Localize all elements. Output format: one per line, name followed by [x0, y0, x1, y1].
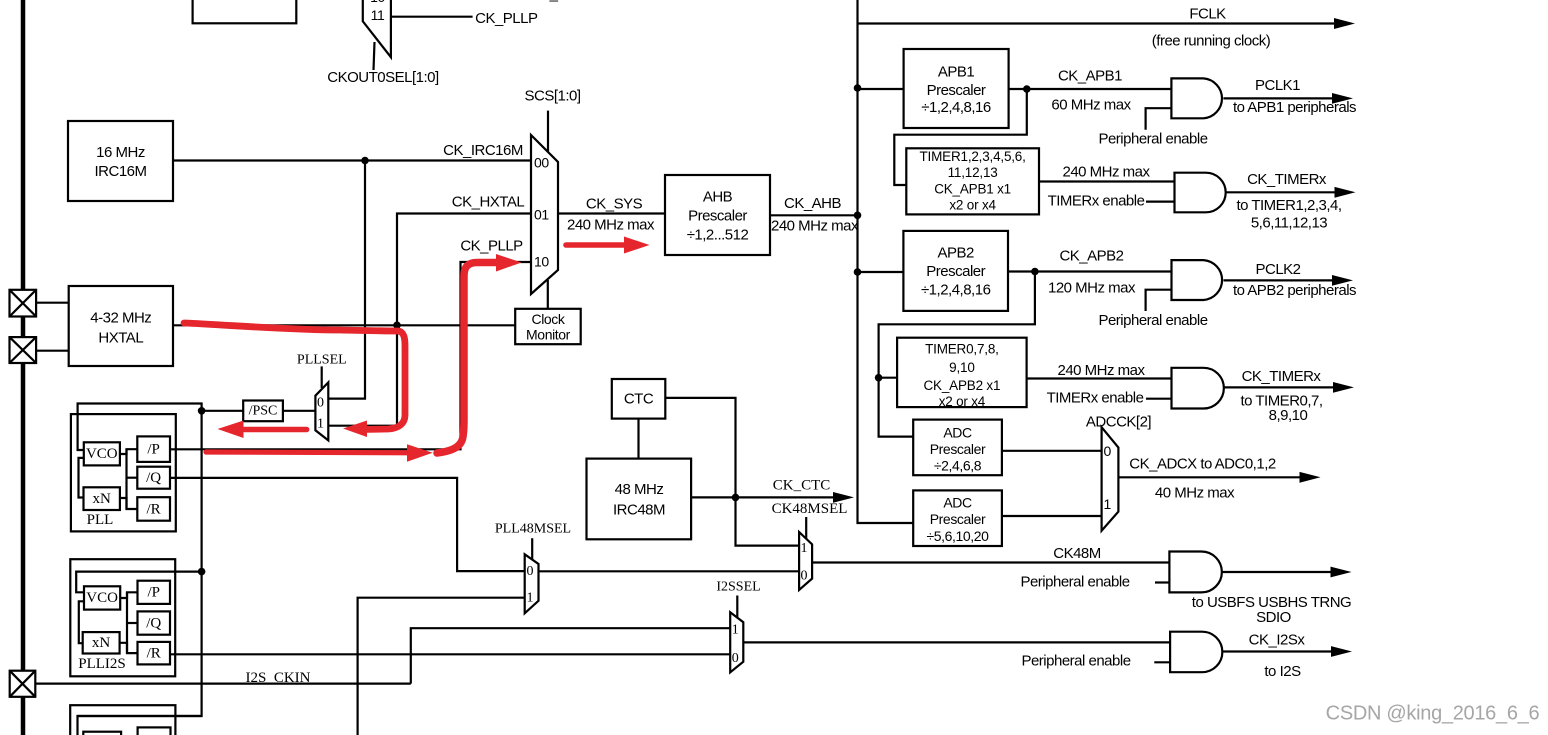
block APB2 Prescaler: [903, 231, 1008, 311]
svg-text:CSDN @king_2016_6_6: CSDN @king_2016_6_6: [1326, 703, 1540, 725]
wire PLLI2S /R to I2SSEL input 0: [170, 653, 730, 655]
label I2S_CKIN: [245, 670, 310, 686]
label CK_PLLP (mid): [460, 238, 523, 255]
wire SCS mux to Clock Monitor: [547, 280, 549, 309]
label CK_IRC16M: [443, 142, 523, 159]
svg-text:APB2: APB2: [938, 245, 975, 262]
wire bus to APB2 prescaler: [858, 271, 904, 273]
svg-text:48 MHz: 48 MHz: [615, 481, 664, 498]
block bottom PLL /P (cut): [138, 727, 171, 735]
wire CK_PLLP from PLL /P to SCS mux input 10: [170, 262, 532, 449]
label 240 MHz max (CK_AHB): [771, 218, 859, 235]
svg-text:CK_ADCX to ADC0,1,2: CK_ADCX to ADC0,1,2: [1129, 456, 1276, 473]
svg-text:1: 1: [801, 541, 808, 556]
svg-text:PLLI2S: PLLI2S: [78, 656, 126, 672]
block PLLI2S /P: [138, 581, 171, 604]
label CK_TIMERx (APB1): [1247, 171, 1327, 188]
wire ADC prescaler2 to ADCCK mux input 1: [1002, 515, 1102, 517]
svg-text:(free running clock): (free running clock): [1152, 33, 1271, 50]
svg-text:1: 1: [732, 623, 739, 638]
block PLLI2S outer box: [70, 559, 175, 676]
svg-text:Monitor: Monitor: [526, 327, 571, 343]
wire TIMERx enable stub into U2: [1146, 201, 1175, 203]
wire PLL48MSEL select line: [531, 538, 533, 562]
svg-text:to I2S: to I2S: [1264, 663, 1301, 680]
block PLL outer box: [71, 414, 176, 531]
wire HXTAL branch to PLLSEL input 1: [329, 425, 397, 427]
svg-text:x2 or x4: x2 or x4: [949, 198, 996, 213]
svg-text:00: 00: [534, 155, 549, 171]
mux PLL48MSEL: [525, 554, 539, 613]
label PLLI2S: [78, 656, 126, 672]
svg-text:TIMERx enable: TIMERx enable: [1047, 390, 1144, 407]
svg-text:CK_APB1: CK_APB1: [1058, 68, 1122, 85]
label (free running clock): [1152, 33, 1271, 50]
wire PLL internal divider bus: [120, 449, 137, 509]
svg-text:CK_AHB: CK_AHB: [784, 195, 842, 212]
block PLL /P: [137, 436, 170, 462]
label 120 MHz max: [1048, 280, 1136, 297]
mux SCS system clock selector: [531, 135, 558, 294]
label 60 MHz max: [1051, 97, 1131, 114]
block PLL /Q: [137, 467, 170, 489]
wire I2S_CKIN up to I2SSEL input 1: [411, 628, 730, 683]
wire CK_TIMERx output arrow (APB1 timers): [1226, 187, 1356, 198]
svg-text:0: 0: [801, 569, 808, 584]
label PLL48MSEL: [495, 522, 571, 537]
wire CK_I2Sx output arrow: [1222, 646, 1352, 657]
wire I2SSEL output to AND gate U6: [743, 641, 1170, 643]
svg-text:PLLSEL: PLLSEL: [297, 353, 347, 368]
wire CK_CTC output arrow: [691, 492, 854, 503]
label PLL: [87, 512, 114, 528]
svg-text:4-32 MHz: 4-32 MHz: [90, 310, 151, 327]
svg-text:ADC: ADC: [943, 495, 972, 511]
svg-text:1: 1: [1104, 496, 1112, 512]
block bottom PLL VCO (cut): [83, 732, 121, 735]
svg-text:/Q: /Q: [146, 470, 161, 486]
wire CK48M from mux to AND gate U5: [812, 561, 1169, 563]
wire peripheral enable into gate U1: [1146, 108, 1172, 130]
wire TIMER0 clock to AND gate U4: [1027, 377, 1172, 379]
wire CK_PLLP into CKOUT0SEL input 11: [391, 16, 473, 18]
label CK_APB2: [1059, 248, 1123, 265]
svg-text:÷1,2,4,8,16: ÷1,2,4,8,16: [921, 282, 991, 299]
svg-text:CK_IRC16M: CK_IRC16M: [443, 142, 523, 159]
wire CK_APB1 branch down to TIMER1 multiplier: [894, 89, 1027, 185]
svg-text:CK_SYS: CK_SYS: [586, 196, 643, 213]
node junction PLL feed: [198, 407, 206, 415]
wire from bottom PLL block to PLL48MSEL input 1: [358, 598, 525, 735]
red annotation arrow out of /PSC (leftwards): [218, 421, 307, 439]
block ADC Prescaler 2: [913, 490, 1002, 546]
wire CK_AHB to bus: [770, 214, 858, 216]
wire junction to TIMER0 box: [879, 377, 898, 379]
svg-text:TIMER1,2,3,4,5,6,: TIMER1,2,3,4,5,6,: [920, 149, 1026, 164]
oscillator block 4-32 MHz HXTAL: [69, 286, 173, 366]
svg-text:/P: /P: [147, 585, 160, 601]
svg-text:÷1,2,4,8,16: ÷1,2,4,8,16: [921, 99, 991, 116]
wire CK_APB1 to AND gate U1: [1009, 88, 1172, 90]
svg-text:Peripheral enable: Peripheral enable: [1020, 574, 1129, 591]
crystal X2 pad lower: [10, 337, 37, 363]
label CK_I2Sx: [1249, 632, 1306, 649]
svg-text:240 MHz max: 240 MHz max: [771, 218, 859, 235]
label CK_AHB: [784, 195, 842, 212]
block PLLI2S /R: [138, 642, 171, 665]
label CK48MSEL: [772, 501, 848, 517]
svg-text:PCLK2: PCLK2: [1255, 261, 1300, 278]
svg-text:ADC: ADC: [943, 425, 972, 441]
label CK_HXTAL: [452, 194, 525, 211]
wire CK_SYS from SCS mux to AHB prescaler: [558, 212, 665, 214]
label to I2S: [1264, 663, 1301, 680]
red annotation curve up into SCS mux input 10: [437, 254, 522, 453]
mux ADCCK: [1102, 427, 1119, 531]
svg-text:CK_HXTAL: CK_HXTAL: [452, 194, 525, 211]
svg-text:0: 0: [527, 564, 534, 579]
svg-text:CK_HXTAL: CK_HXTAL: [530, 0, 603, 3]
power rail thick vertical bar: [21, 0, 26, 735]
wire CTC right branch down to junction: [665, 398, 735, 498]
label PCLK1: [1255, 77, 1300, 94]
wire enable stub into U6: [1154, 661, 1170, 663]
wire /PSC output to PLL feed node: [202, 410, 244, 412]
svg-text:Prescaler: Prescaler: [927, 82, 986, 99]
svg-text:5,6,11,12,13: 5,6,11,12,13: [1251, 215, 1327, 232]
block PLL VCO: [84, 442, 120, 465]
svg-text:1: 1: [527, 591, 534, 606]
label SCS[1:0]: [524, 88, 580, 105]
oscillator block 16 MHz IRC16M: [68, 121, 173, 201]
svg-text:/PSC: /PSC: [249, 404, 278, 419]
label to TIMER0,7,: [1240, 393, 1322, 410]
wire IRC16M branch down to PLLSEL input 0: [329, 161, 365, 399]
svg-text:60 MHz max: 60 MHz max: [1051, 97, 1131, 114]
block CTC: [612, 379, 666, 419]
node junction APB2 input at bus: [854, 268, 862, 276]
svg-text:TIMER0,7,8,: TIMER0,7,8,: [925, 342, 999, 357]
svg-text:xN: xN: [93, 491, 112, 507]
svg-text:CKOUT0SEL[1:0]: CKOUT0SEL[1:0]: [327, 69, 439, 86]
node junction PLLI2S feed: [198, 568, 206, 576]
svg-text:VCO: VCO: [86, 590, 118, 606]
and-gate U5 CK48M: [1169, 552, 1221, 593]
svg-text:CK_APB2 x1: CK_APB2 x1: [924, 378, 1001, 393]
label 40 MHz max: [1155, 485, 1235, 502]
svg-text:VCO: VCO: [86, 446, 118, 462]
wire CK_HXTAL up to SCS mux input 01: [397, 214, 532, 426]
wire PLL feed vertical to PLLI2S and bottom PLL: [78, 411, 202, 716]
svg-text:CK_APB1 x1: CK_APB1 x1: [934, 182, 1011, 197]
wire PCLK1 output arrow: [1223, 93, 1353, 104]
mux I2SSEL: [730, 612, 743, 672]
svg-text:PLL: PLL: [87, 512, 114, 528]
svg-text:/R: /R: [147, 646, 161, 662]
red annotation along CK_PLLP (rightwards arrow): [206, 444, 433, 462]
crystal X3 pad I2S_CKIN: [10, 671, 36, 697]
wire IRC48M branch to CK48MSEL input 1: [736, 497, 800, 545]
label Peripheral enable (I2S): [1021, 653, 1130, 670]
wire CK_ADCX output arrow: [1118, 472, 1320, 483]
svg-text:Peripheral enable: Peripheral enable: [1098, 312, 1207, 329]
label 8,9,10: [1269, 407, 1308, 424]
wire I2S_CKIN from crystal X3: [35, 682, 411, 684]
svg-text:Prescaler: Prescaler: [926, 263, 985, 280]
svg-text:/Q: /Q: [146, 615, 161, 631]
svg-text:FCLK: FCLK: [1189, 6, 1226, 23]
block PLLI2S xN: [83, 632, 120, 653]
svg-text:PLL48MSEL: PLL48MSEL: [495, 522, 571, 537]
wire CK_IRC16M to SCS mux input 00: [173, 159, 532, 161]
and-gate U6 CK_I2Sx: [1170, 632, 1222, 673]
label TIMERx enable (TIMER0): [1047, 390, 1144, 407]
svg-text:10: 10: [370, 0, 385, 5]
crystal X1 pad upper: [10, 290, 37, 317]
node junction on HXTAL output: [393, 322, 401, 330]
label FCLK: [1189, 6, 1226, 23]
svg-text:0: 0: [317, 396, 324, 411]
svg-text:0: 0: [732, 651, 739, 666]
svg-text:40 MHz max: 40 MHz max: [1155, 485, 1235, 502]
red annotation path along HXTAL into PLLSEL input 1: [184, 323, 405, 437]
svg-text:0: 0: [1104, 443, 1112, 459]
svg-text:CK48MSEL: CK48MSEL: [772, 501, 848, 517]
node junction CK_APB2: [1031, 268, 1039, 276]
svg-text:CK_CTC: CK_CTC: [773, 478, 831, 494]
svg-text:IRC48M: IRC48M: [613, 502, 665, 519]
block TIMER1 multiplier: [906, 148, 1039, 214]
svg-text:/R: /R: [147, 502, 161, 518]
label to APB2 peripherals: [1233, 282, 1356, 299]
label 240 MHz max (CK_SYS): [567, 217, 655, 234]
svg-text:TIMERx enable: TIMERx enable: [1048, 193, 1145, 210]
wire CK_APB2 branch down to TIMER0 multiplier: [879, 272, 1035, 437]
wire CTC to IRC48M: [637, 419, 639, 459]
label CK_HXTAL (cut off at top edge): [530, 0, 603, 3]
svg-text:10: 10: [534, 254, 549, 270]
wire PLLSEL select line: [321, 366, 323, 388]
wire CK_TIMERx output arrow (APB2 timers): [1224, 382, 1354, 393]
wire peripheral enable into gate U3: [1146, 290, 1172, 311]
block AHB Prescaler: [665, 175, 770, 255]
wire PLL /Q to PLL48MSEL input 0: [170, 478, 525, 571]
svg-text:/P: /P: [147, 442, 160, 458]
svg-text:11: 11: [371, 7, 385, 23]
svg-text:Peripheral enable: Peripheral enable: [1021, 653, 1130, 670]
wire PLL48MSEL output to CK48MSEL input 0: [539, 570, 800, 572]
svg-text:SCS[1:0]: SCS[1:0]: [524, 88, 580, 105]
svg-text:xN: xN: [92, 635, 111, 651]
svg-text:240 MHz max: 240 MHz max: [1062, 164, 1150, 181]
svg-text:to TIMER1,2,3,4,: to TIMER1,2,3,4,: [1236, 197, 1341, 214]
wire crystal X1 to HXTAL: [36, 302, 69, 304]
wire bus to APB1 prescaler: [858, 88, 904, 90]
mux CK48MSEL: [799, 532, 812, 590]
svg-text:240 MHz max: 240 MHz max: [567, 217, 655, 234]
svg-text:I2S_CKIN: I2S_CKIN: [245, 670, 310, 686]
svg-text:SDIO: SDIO: [1256, 609, 1291, 626]
label 240 MHz max (TIMER0): [1057, 362, 1145, 379]
label TIMERx enable (TIMER1): [1048, 193, 1145, 210]
node junction TIMER0 input: [875, 374, 883, 382]
svg-text:CK_PLLP: CK_PLLP: [475, 10, 538, 27]
wire enable stub into U5: [1155, 581, 1169, 583]
block PLLI2S VCO: [84, 586, 120, 609]
svg-text:CTC: CTC: [624, 391, 654, 408]
label to TIMER1,2,3,4,: [1236, 197, 1341, 214]
svg-text:HXTAL: HXTAL: [98, 330, 143, 347]
label Peripheral enable (APB1): [1098, 131, 1207, 148]
wire bottom PLL input line: [78, 716, 202, 735]
svg-text:CK_TIMERx: CK_TIMERx: [1247, 171, 1327, 188]
wire PLL input loop (top): [78, 404, 202, 451]
and-gate U2 CK_TIMERx (APB1 timers): [1175, 173, 1226, 213]
label 240 MHz max (TIMER1): [1062, 164, 1150, 181]
block bottom PLL outer box (cut off): [70, 705, 175, 735]
block B1 partial box top-left: [193, 0, 297, 23]
label CKOUT0SEL[1:0]: [327, 69, 439, 86]
red annotation arrow on CK_SYS: [566, 237, 650, 254]
svg-text:to APB1 peripherals: to APB1 peripherals: [1233, 99, 1356, 116]
and-gate U3 PCLK2: [1172, 260, 1223, 300]
label CK_SYS: [586, 196, 643, 213]
svg-text:01: 01: [534, 207, 549, 223]
label CK_PLLP (top): [475, 10, 538, 27]
wire AHB bus vertical: [858, 0, 914, 523]
label SDIO: [1256, 609, 1291, 626]
wire CK_HXTAL from HXTAL to Clock Monitor: [173, 324, 515, 326]
wire PCLK2 output arrow: [1224, 275, 1354, 286]
label I2SSEL: [716, 580, 760, 595]
label 5,6,11,12,13: [1251, 215, 1327, 232]
svg-text:I2SSEL: I2SSEL: [716, 580, 760, 595]
label CK_APB1: [1058, 68, 1122, 85]
wire PLLI2S input line (top): [76, 572, 201, 593]
wire FCLK output: [858, 18, 1356, 29]
label PLLSEL: [297, 353, 347, 368]
node junction APB1 input at bus: [854, 84, 862, 92]
wire SCS select line: [547, 111, 549, 153]
svg-text:11,12,13: 11,12,13: [948, 165, 998, 180]
block TIMER0 multiplier: [897, 338, 1027, 409]
svg-text:Prescaler: Prescaler: [688, 208, 747, 225]
svg-text:x2 or x4: x2 or x4: [939, 394, 986, 409]
svg-text:Clock: Clock: [531, 311, 565, 327]
label CK_ADCX to ADC0,1,2: [1129, 456, 1276, 473]
svg-text:CK_PLLP: CK_PLLP: [460, 238, 523, 255]
node junction CK_AHB at bus: [854, 212, 862, 220]
block ADC Prescaler 1: [913, 420, 1002, 476]
svg-text:16 MHz: 16 MHz: [96, 144, 145, 161]
svg-text:CK48M: CK48M: [1053, 545, 1101, 562]
mux PLLSEL: [315, 382, 328, 440]
svg-text:÷1,2...512: ÷1,2...512: [687, 227, 749, 244]
block APB1 Prescaler: [904, 49, 1009, 128]
svg-text:CK_TIMERx: CK_TIMERx: [1242, 368, 1322, 385]
svg-text:Prescaler: Prescaler: [930, 441, 986, 457]
svg-text:8,9,10: 8,9,10: [1269, 407, 1308, 424]
svg-text:to APB2 peripherals: to APB2 peripherals: [1233, 282, 1356, 299]
svg-text:÷5,6,10,20: ÷5,6,10,20: [926, 528, 989, 544]
svg-text:120 MHz max: 120 MHz max: [1048, 280, 1136, 297]
svg-text:CK_APB2: CK_APB2: [1059, 248, 1123, 265]
svg-text:Prescaler: Prescaler: [930, 511, 986, 527]
block PLLI2S /Q: [138, 611, 171, 634]
label CK_CTC: [773, 478, 831, 494]
label to USBFS USBHS TRNG: [1192, 594, 1351, 611]
svg-text:IRC16M: IRC16M: [94, 163, 146, 180]
watermark CSDN: [1326, 703, 1540, 725]
label Peripheral enable (CK48M): [1020, 574, 1129, 591]
label CK48M: [1053, 545, 1101, 562]
label PCLK2: [1255, 261, 1300, 278]
label Peripheral enable (APB2): [1098, 312, 1207, 329]
node junction IRC48M output: [732, 494, 740, 502]
wire CK_APB2 to AND gate U3: [1008, 270, 1172, 272]
wire /PSC input from PLLSEL output: [283, 410, 316, 412]
wire ADC prescaler1 to ADCCK mux input 0: [1002, 450, 1102, 452]
mux CKOUT0SEL (partial, top): [363, 0, 391, 70]
svg-text:1: 1: [317, 417, 324, 432]
wire TIMER1 clock to AND gate U2: [1039, 180, 1175, 182]
node junction on CK_IRC16M: [361, 157, 369, 165]
wire CK48MSEL select line: [805, 517, 807, 542]
block PLL xN: [84, 487, 120, 510]
svg-text:PCLK1: PCLK1: [1255, 77, 1300, 94]
block Clock Monitor: [515, 309, 581, 344]
label CK_TIMERx (APB2): [1242, 368, 1322, 385]
svg-text:240 MHz max: 240 MHz max: [1057, 362, 1145, 379]
svg-text:CK_I2Sx: CK_I2Sx: [1249, 632, 1306, 649]
block PLL /R: [137, 497, 170, 521]
label ADCCK[2]: [1086, 414, 1152, 431]
block 48 MHz IRC48M: [587, 459, 692, 540]
label to APB1 peripherals: [1233, 99, 1356, 116]
block /PSC predivider: [243, 401, 283, 422]
and-gate U1 PCLK1: [1171, 78, 1222, 118]
wire CK48M output arrow: [1222, 567, 1352, 578]
wire PLLI2S VCO feedback loop: [79, 601, 84, 643]
svg-text:ADCCK[2]: ADCCK[2]: [1086, 414, 1152, 431]
svg-text:÷2,4,6,8: ÷2,4,6,8: [934, 458, 982, 474]
svg-text:APB1: APB1: [938, 64, 975, 81]
svg-text:Peripheral enable: Peripheral enable: [1098, 131, 1207, 148]
wire TIMERx enable stub into U4: [1146, 398, 1172, 400]
svg-text:AHB: AHB: [703, 189, 733, 206]
node junction CK_APB1: [1023, 85, 1031, 93]
wire PLLI2S internal divider bus: [120, 592, 138, 653]
wire crystal X2 to HXTAL: [36, 350, 69, 352]
svg-text:9,10: 9,10: [949, 360, 974, 375]
wire PLL VCO feedback loop: [79, 458, 84, 498]
wire I2SSEL select line: [736, 596, 738, 622]
and-gate U4 CK_TIMERx (APB2 timers): [1172, 368, 1224, 409]
